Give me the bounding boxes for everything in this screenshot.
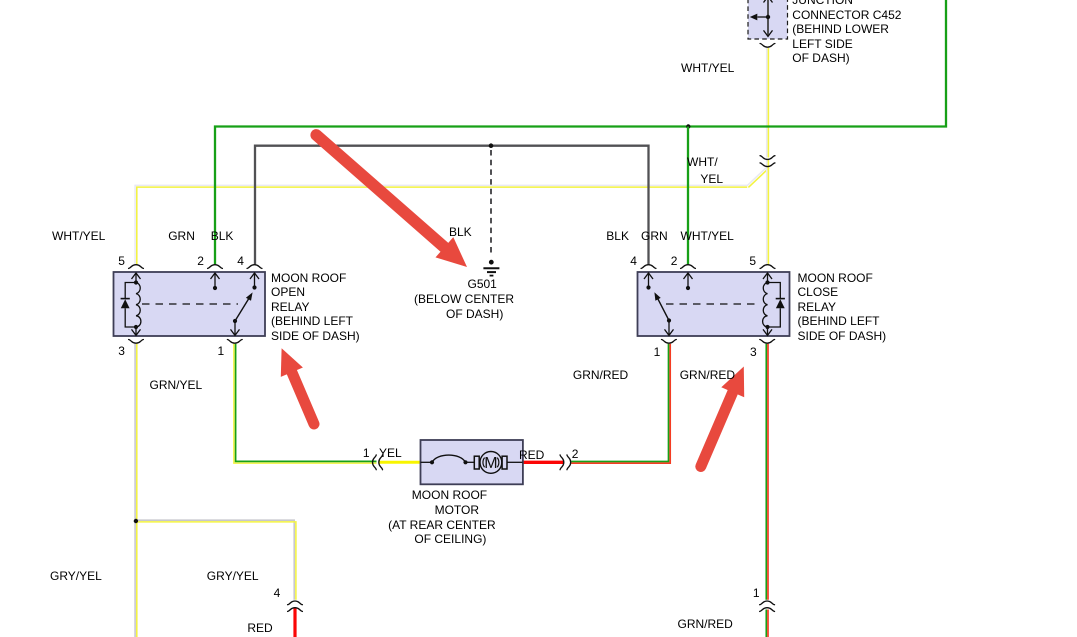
wire label BLK center — [449, 225, 472, 239]
wire GRY/YEL branch right then down to connector (yellow stripe) — [135, 522, 296, 600]
open relay switch arm — [233, 319, 237, 323]
wire GRN/RED below bottom-right connector to page bottom (red stripe) — [767, 610, 769, 637]
junction dot on GRY/YEL wire — [134, 519, 138, 523]
motor connector pin number 1 — [363, 446, 370, 460]
open relay pin number 1 — [218, 344, 225, 358]
wire WHT/YEL from inline connector down to close relay pin 5 (white stripe) — [766, 166, 768, 265]
moon roof open relay label — [271, 271, 360, 343]
wire label GRN/RED right — [680, 368, 735, 382]
open relay pin 5 connector — [129, 265, 144, 269]
wire BLK bus from open relay pin 4 up, across, down to close relay pin 4 — [255, 146, 649, 265]
motor brush right — [502, 456, 507, 469]
wire YEL from connector 1 into moon roof motor — [380, 461, 422, 464]
open relay mechanical link dashed line — [142, 303, 238, 305]
wire RED from moon roof motor to connector 2 — [523, 461, 564, 464]
close relay pin number 5 — [749, 254, 756, 268]
wire label GRN left — [168, 229, 195, 243]
connector 1 left of motor (inner arc) — [379, 455, 383, 470]
moon roof close relay box — [638, 272, 790, 336]
wire label RED at motor — [519, 448, 544, 462]
svg-text:M: M — [484, 455, 497, 472]
close relay coil bottom dot — [765, 325, 769, 329]
ground label OF DASH) — [446, 307, 503, 321]
wire GRY/YEL branch right then down to connector (gray stripe) — [135, 520, 294, 600]
close relay pin 3 stub arrow — [767, 327, 769, 335]
wire label GRN/YEL — [150, 378, 203, 392]
C452 internal junction dot — [766, 15, 770, 19]
C452 internal bus line — [767, 0, 769, 36]
wire label GRY/YEL right — [207, 569, 259, 583]
moon roof motor label line 3 — [388, 518, 496, 532]
connector 2 right of motor (inner arc) — [560, 455, 564, 470]
wire GRN/RED below bottom-right connector to page bottom (green stripe) — [765, 610, 767, 637]
open relay pin number 5 — [118, 254, 125, 268]
wire GRN/RED from close relay pin 3 down to inline connector (red stripe) — [767, 344, 769, 600]
close relay pin 3 connector — [760, 339, 775, 343]
wire RED below bottom-left connector to page bottom — [293, 608, 296, 637]
inline connector on WHT/YEL wire (lower arc) — [760, 163, 775, 167]
wire WHT/YEL from inline connector down to close relay pin 5 (yellow stripe) — [767, 166, 769, 265]
open relay pin 4 connector — [247, 265, 262, 269]
bottom-left inline connector (lower arc) — [288, 608, 303, 612]
C452 internal branch arrow left — [758, 16, 769, 18]
open relay pin 3 connector — [129, 339, 144, 343]
wire WHT/YEL from open relay pin 5 up and across (yellow stripe) — [137, 187, 747, 264]
open relay pin 2 connector — [208, 265, 223, 269]
dashed BLK wire drop to ground G501 — [490, 150, 492, 257]
ground label G501 — [468, 277, 497, 291]
wire label WHT/YEL right — [681, 229, 734, 243]
open relay pin 1 stub arrow — [234, 321, 236, 335]
wire label GRN/RED bottom — [678, 617, 733, 631]
close relay pin 2 connector — [681, 265, 696, 269]
close relay switch arm — [667, 318, 671, 322]
wire WHT/YEL diagonal jog up to junction connector drop (yellow stripe) — [748, 159, 768, 187]
ground label (BELOW CENTER — [414, 292, 514, 306]
wire label WHT/YEL left — [52, 229, 105, 243]
motor internal arc contact — [432, 455, 466, 462]
wire GRN/YEL from open relay pin 1 down and right to motor connector (green stripe) — [236, 344, 377, 462]
wire label BLK right — [606, 229, 629, 243]
red annotation arrow pointing to open relay — [290, 369, 314, 425]
open relay pin number 4 — [237, 254, 244, 268]
close relay mechanical link dashed line — [666, 303, 757, 305]
wire GRY/YEL from open relay pin 3 down to page bottom (gray stripe) — [134, 344, 136, 637]
close relay pin number 1 — [654, 345, 661, 359]
C452 internal bottom arrowhead — [764, 30, 773, 36]
close relay pin 5 stub arrow — [763, 273, 772, 279]
C452 internal top arrowhead — [764, 0, 773, 3]
motor brush left — [474, 456, 479, 469]
close relay pin 1 stub arrow — [668, 321, 670, 336]
red annotation arrow pointing to ground G501 — [316, 135, 447, 250]
moon roof motor box — [421, 440, 523, 484]
wire label YEL at motor — [379, 446, 402, 460]
wire WHT/YEL from junction connector C452 down to inline connector (yellow stripe) — [767, 48, 769, 158]
bottom-right inline connector (lower arc) — [760, 608, 775, 612]
red annotation arrow pointing to close relay pin 3 — [701, 389, 735, 467]
wire GRN/RED from connector 2 right and up to close relay pin 1 (green stripe) — [571, 344, 668, 462]
close relay pin 5 connector — [760, 265, 775, 269]
close relay pin number 4 — [630, 254, 637, 268]
open relay coil bottom dot — [134, 325, 138, 329]
motor lead-out wire — [507, 461, 523, 463]
ground G501 symbol — [483, 260, 499, 276]
wire label RED bottom — [247, 621, 272, 635]
close relay pin number 2 — [671, 254, 678, 268]
close relay coil — [763, 283, 768, 328]
open relay pin 5 stub arrow — [132, 273, 141, 279]
wire label BLK left — [211, 229, 234, 243]
connector symbol below C452 — [760, 43, 775, 47]
close relay pin 2 stub arrow — [684, 273, 693, 279]
junction dot on BLK bus above ground — [489, 143, 494, 148]
motor internal wire — [466, 461, 475, 463]
bottom-left inline connector (upper arc) — [288, 601, 303, 605]
motor lead-in wire — [421, 461, 433, 463]
wire label GRN right — [641, 229, 668, 243]
connector 1 left of motor (outer arc) — [373, 455, 377, 470]
open relay pin 4 stub arrow — [250, 273, 259, 279]
motor commutator arc left — [483, 458, 485, 468]
wire label YEL (jog) — [700, 172, 723, 186]
close relay pin 4 stub arrow — [644, 273, 653, 279]
motor contact dot right — [463, 460, 467, 464]
diode across open relay coil — [121, 283, 136, 328]
wire label WHT/YEL top — [681, 61, 734, 75]
close relay pin 1 connector — [662, 339, 677, 343]
close relay pin number 3 — [750, 345, 757, 359]
moon roof motor label line 1 — [412, 488, 487, 502]
wire GRN/YEL from open relay pin 1 down and right to motor connector (yellow stripe) — [234, 344, 377, 463]
motor circle symbol — [480, 452, 502, 474]
moon roof open relay box — [114, 272, 266, 336]
wire WHT/YEL from junction connector C452 down to inline connector (white stripe) — [766, 48, 768, 158]
junction connector C452 box — [748, 0, 788, 39]
bottom-right inline connector (upper arc) — [760, 601, 775, 605]
wire WHT/YEL diagonal jog up to junction connector drop (white stripe) — [747, 159, 767, 186]
motor contact dot left — [430, 460, 434, 464]
open relay pin 2 stub arrow — [211, 273, 220, 279]
close relay pin 4 connector — [641, 265, 656, 269]
open relay pin 1 connector — [227, 339, 242, 343]
bottom-right connector pin number 1 — [753, 586, 760, 600]
inline connector on WHT/YEL wire (upper arc) — [760, 156, 775, 160]
wire label GRN/RED left — [573, 368, 628, 382]
junction dot on GRN bus — [686, 124, 690, 128]
moon roof motor label line 2 — [435, 503, 479, 517]
open relay pin number 2 — [197, 254, 204, 268]
motor connector pin number 2 — [572, 447, 579, 461]
moon roof close relay label — [798, 271, 887, 343]
wire GRN/RED from connector 2 right and up to close relay pin 1 (red stripe) — [571, 344, 670, 463]
bottom-left connector pin number 4 — [274, 586, 281, 600]
connector 2 right of motor (outer arc) — [567, 455, 571, 470]
open relay pin number 3 — [118, 344, 125, 358]
wire label GRY/YEL left — [50, 569, 102, 583]
open relay pin 3 stub arrow — [135, 327, 137, 335]
wire WHT/YEL from open relay pin 5 up and across (white stripe) — [135, 185, 748, 264]
open relay coil — [136, 283, 141, 328]
wire label WHT/ (jog) — [687, 155, 718, 169]
wire GRN/RED from close relay pin 3 down to inline connector (green stripe) — [765, 344, 767, 600]
diode across close relay coil — [768, 283, 785, 328]
wire GRN branch down to close relay pin 2 — [687, 127, 689, 265]
wire GRN bus from open relay pin 2 up, across top, up to page top right — [215, 0, 946, 264]
wire GRY/YEL from open relay pin 3 down to page bottom (yellow stripe) — [136, 344, 138, 637]
moon roof motor label line 4 — [414, 532, 486, 546]
motor commutator arc right — [497, 458, 499, 468]
junction connector C452 label — [792, 0, 901, 65]
